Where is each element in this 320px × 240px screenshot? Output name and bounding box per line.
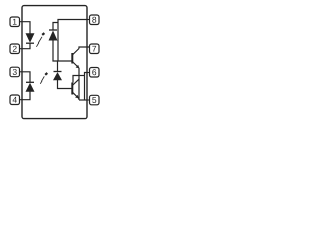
pin 6 (87, 68, 99, 78)
pin 1 (10, 17, 22, 27)
pin label 5 (92, 97, 96, 103)
LED D1 (26, 34, 34, 44)
pin 8 (87, 15, 99, 25)
wire darlington link to Q2 base top (73, 76, 79, 83)
pin label 7 (92, 46, 96, 52)
wire pin 8 rail (58, 20, 87, 62)
transistor Q1 (72, 49, 79, 69)
pin 3 (10, 67, 22, 77)
wire PD2 to Q2 base (58, 80, 73, 89)
wire cathode LED1 to pin 2 (22, 43, 30, 49)
wire pin 6 column (84, 76, 86, 101)
wire anode LED2 to pin 4 (22, 92, 30, 100)
photodiode PD2 (54, 72, 62, 81)
wire emitter rail to pin 5 (79, 99, 87, 101)
wire cathode LED2 from pin 3 (22, 72, 30, 83)
transistor Q2 (72, 79, 79, 99)
pin label 1 (13, 19, 17, 25)
photon arrows channel 2 (40, 73, 47, 84)
pin label 6 (92, 69, 96, 75)
pin 5 (87, 95, 99, 105)
wire Q1 collector to pin 7 (79, 47, 90, 49)
LED D2 (reversed) (26, 82, 34, 91)
wire PD1 anode to Q1 base (53, 40, 72, 61)
photodiode PD1 (49, 30, 57, 40)
pin 4 (10, 95, 22, 105)
pin label 4 (13, 97, 17, 103)
package body U1 (22, 6, 87, 119)
wire stem to PD2 (57, 61, 59, 71)
photon arrows channel 1 (36, 33, 44, 47)
pin 7 (87, 44, 99, 54)
pin label 3 (13, 69, 17, 75)
wire node row (79, 75, 85, 77)
pin 2 (10, 44, 22, 54)
wire pin 6 drop (85, 73, 88, 76)
wire anode LED1 from pin 1 (22, 22, 30, 34)
wire Q1 emitter down to ground rail (78, 68, 80, 100)
pin label 2 (13, 46, 17, 52)
wire photodiode PD1 top jumper (53, 23, 58, 31)
pin label 8 (92, 17, 96, 23)
